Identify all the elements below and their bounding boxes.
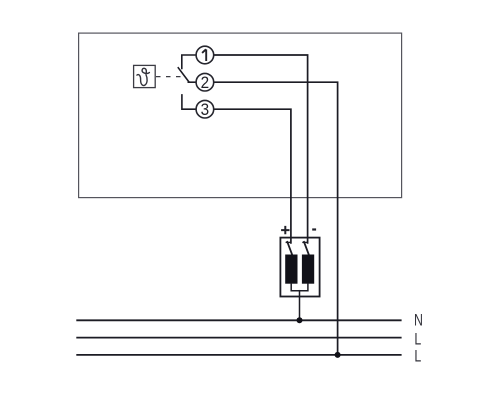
svg-text:3: 3 bbox=[201, 100, 210, 119]
svg-text:N: N bbox=[414, 312, 423, 330]
svg-text:2: 2 bbox=[201, 73, 210, 92]
svg-text:L: L bbox=[414, 331, 421, 349]
svg-text:L: L bbox=[414, 348, 421, 366]
